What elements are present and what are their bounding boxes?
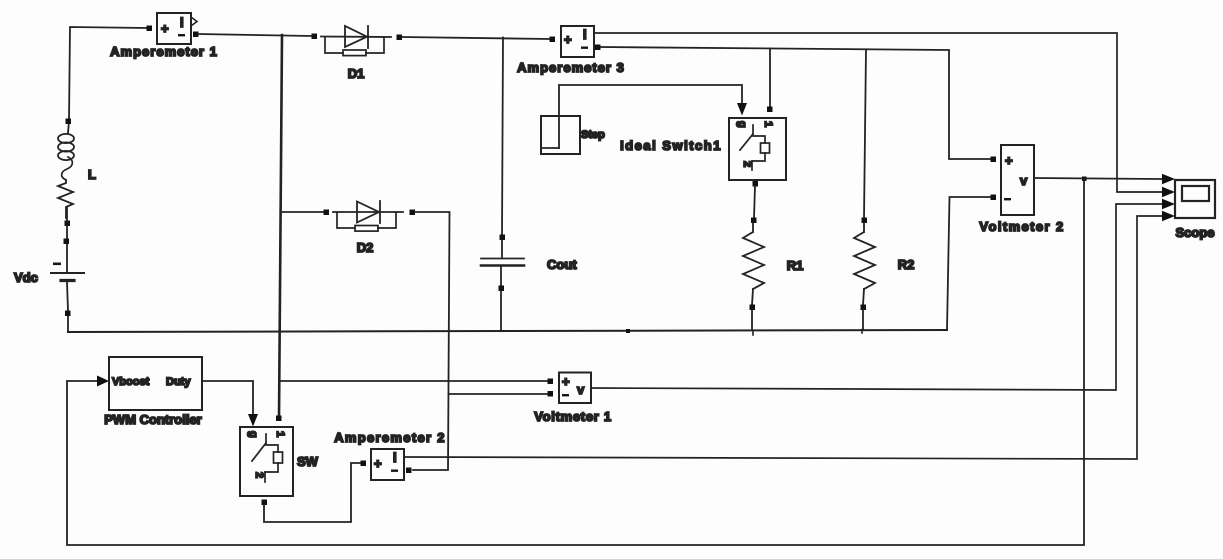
svg-text:Duty: Duty — [166, 376, 191, 388]
svg-text:+: + — [374, 456, 382, 471]
wire Amperemeter 3 signal to Scope input 2 — [594, 33, 1164, 192]
wire Voltmeter 1 out to Scope input 3 — [591, 204, 1164, 390]
wire to Voltmeter 1 minus — [449, 393, 549, 395]
diode D2 — [324, 201, 416, 231]
svg-text:R1: R1 — [787, 258, 804, 273]
svg-text:+: + — [564, 32, 572, 47]
Amperemeter 3 — [550, 26, 601, 57]
wire tap to Ideal Switch1 port 1 — [769, 49, 771, 107]
svg-text:2: 2 — [253, 472, 265, 478]
wire node to Voltmeter 1 plus — [280, 380, 549, 382]
wire Step to Ideal Switch1 gate — [559, 85, 742, 148]
wire node to D2 — [282, 211, 323, 213]
wire Duty out to SW gate — [202, 381, 253, 415]
svg-text:+: + — [562, 374, 570, 389]
capacitor Cout — [481, 235, 524, 332]
wire bottom rail — [68, 330, 947, 332]
Amperemeter 1 — [147, 13, 199, 44]
svg-text:SW: SW — [297, 454, 319, 469]
wire D2 cathode down to Amperemeter 2 out — [413, 212, 450, 470]
svg-text:Vdc: Vdc — [14, 270, 38, 285]
svg-text:Ideal Switch1: Ideal Switch1 — [620, 138, 722, 153]
svg-text:Amperemeter 1: Amperemeter 1 — [110, 44, 218, 59]
svg-text:Voltmeter 2: Voltmeter 2 — [979, 219, 1064, 234]
wire SW out to Amperemeter 2 — [264, 463, 360, 522]
svg-text:2: 2 — [741, 161, 753, 167]
svg-text:D1: D1 — [348, 66, 365, 81]
wire D1 to Amperemeter 3 — [402, 37, 549, 39]
svg-text:Vboost: Vboost — [112, 376, 150, 388]
wire tap down to R2 — [864, 50, 866, 219]
svg-text:PWM Controller: PWM Controller — [104, 412, 202, 427]
subsystem PWM Controller — [109, 357, 202, 410]
svg-text:Amperemeter 3: Amperemeter 3 — [517, 60, 625, 75]
wire Amperemeter 1 out to D1 — [198, 34, 311, 36]
svg-text:i: i — [393, 450, 397, 465]
svg-text:Amperemeter 2: Amperemeter 2 — [334, 430, 446, 445]
wire Voltmeter 2 out to Scope input 1 — [1034, 178, 1164, 179]
scope Scope — [1175, 180, 1215, 218]
svg-text:1: 1 — [274, 431, 286, 437]
wire Amperemeter 3 out to Voltmeter 2 + — [601, 47, 990, 159]
wire feedback from Voltmeter 2 out to PWM Controller — [67, 179, 1084, 545]
diode D1 — [312, 26, 403, 56]
wire L to Vdc — [66, 226, 68, 241]
resistor R2 — [854, 218, 875, 331]
switch Ideal Switch1 — [729, 107, 786, 187]
svg-text:Cout: Cout — [547, 257, 577, 272]
svg-text:Scope: Scope — [1175, 225, 1214, 240]
svg-text:L: L — [88, 167, 96, 182]
dc voltage source Vdc — [51, 239, 84, 333]
svg-text:Step: Step — [581, 129, 605, 141]
svg-text:i: i — [180, 15, 184, 30]
voltmeter Voltmeter 1 — [548, 373, 592, 404]
svg-text:i: i — [583, 27, 587, 42]
wire Voltmeter 2 minus to bottom rail — [947, 197, 990, 330]
Amperemeter 2 — [361, 449, 412, 480]
svg-text:R2: R2 — [898, 257, 915, 272]
wire main left vertical node — [279, 35, 282, 418]
wire Ideal Switch1 to R1 — [754, 186, 755, 218]
wire Vdc/L branch top: from Amperemeter 1 left port left and down — [69, 27, 149, 121]
switch SW — [240, 416, 293, 506]
step source Step — [541, 116, 580, 154]
voltmeter Voltmeter 2 — [991, 145, 1035, 215]
svg-text:v: v — [1020, 173, 1028, 188]
svg-text:g: g — [247, 431, 259, 438]
svg-text:v: v — [577, 382, 585, 397]
wire Cout tap down — [502, 38, 503, 238]
svg-text:1: 1 — [762, 121, 774, 127]
node junction dot on rail — [626, 329, 630, 333]
svg-text:+: + — [161, 21, 169, 36]
inductor L — [58, 119, 74, 227]
svg-text:D2: D2 — [357, 240, 374, 255]
svg-text:g: g — [736, 121, 748, 128]
wire Amperemeter 2 signal to Scope input 4 — [404, 216, 1164, 459]
resistor R1 — [743, 218, 764, 331]
svg-text:Voltmeter 1: Voltmeter 1 — [534, 409, 612, 424]
svg-text:+: + — [1005, 153, 1013, 168]
